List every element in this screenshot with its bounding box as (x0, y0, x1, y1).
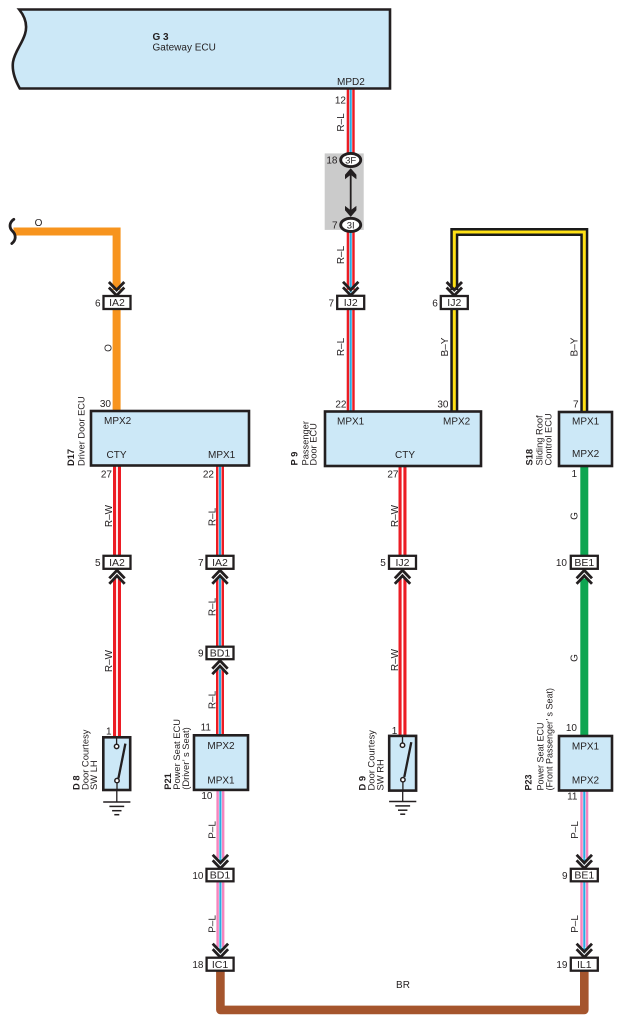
svg-text:MPX2: MPX2 (572, 776, 600, 787)
switch D8 Door Courtesy SW LH (103, 737, 130, 790)
svg-text:22: 22 (203, 469, 215, 480)
svg-text:12: 12 (335, 96, 347, 107)
wire O orange from break to D17 pin 30 via connector IA2 (14, 232, 117, 413)
svg-text:R–L: R–L (208, 507, 219, 526)
svg-text:MPX1: MPX1 (572, 742, 600, 753)
arrow below IJ2 pin 5 (397, 568, 408, 579)
svg-text:G: G (570, 512, 581, 520)
svg-text:Driver Door ECU: Driver Door ECU (77, 396, 87, 466)
svg-text:MPX2: MPX2 (207, 741, 235, 752)
label D17 Driver Door ECU (66, 396, 87, 466)
ECU D17 Driver Door ECU (91, 411, 249, 466)
svg-text:D17: D17 (66, 449, 76, 466)
svg-text:R–L: R–L (336, 337, 347, 356)
connector IJ2 pin 7 (337, 296, 364, 309)
ECU P21 Power Seat ECU (Driver's Seat) (194, 735, 248, 790)
ground of D8 (103, 790, 130, 815)
wire R-L from D17 pin 22 to P21 pin 11 (216, 465, 224, 737)
svg-text:IJ2: IJ2 (395, 557, 409, 569)
svg-text:P23: P23 (524, 774, 534, 790)
svg-text:R–L: R–L (208, 690, 219, 709)
svg-text:MPX2: MPX2 (104, 416, 132, 427)
svg-text:10: 10 (192, 871, 204, 882)
svg-text:11: 11 (567, 792, 578, 803)
connector oval 3F pin 18 (341, 153, 361, 166)
svg-text:10: 10 (556, 558, 568, 569)
svg-text:9: 9 (562, 871, 568, 882)
svg-text:19: 19 (556, 960, 568, 971)
connector BE1 pin 9 (571, 869, 598, 882)
svg-text:CTY: CTY (395, 450, 415, 461)
ECU P9 Passenger Door ECU (325, 412, 481, 467)
svg-text:MPX1: MPX1 (337, 417, 365, 428)
svg-text:7: 7 (332, 221, 338, 232)
svg-text:BR: BR (396, 980, 410, 991)
svg-text:O: O (104, 344, 115, 352)
svg-text:18: 18 (326, 156, 338, 167)
arrow into IJ2 (R-L) (345, 290, 356, 298)
svg-text:CTY: CTY (107, 450, 127, 461)
connector IA2 pin 6 (104, 296, 131, 309)
arrow into IC1 (215, 947, 226, 959)
svg-text:P–L: P–L (208, 915, 219, 933)
connector IA2 pin 7 (207, 556, 234, 569)
svg-text:MPX2: MPX2 (443, 417, 471, 428)
svg-text:27: 27 (101, 469, 113, 480)
wire R-W from D17 pin 27 to D8 pin 1 (113, 465, 121, 738)
arrow into IA2 (orange) (111, 290, 122, 298)
svg-text:22: 22 (335, 400, 347, 411)
svg-text:1: 1 (571, 469, 577, 480)
svg-text:IJ2: IJ2 (447, 297, 461, 309)
svg-text:3I: 3I (347, 220, 355, 231)
svg-text:SW LH: SW LH (88, 760, 99, 790)
svg-text:R–W: R–W (390, 504, 401, 527)
svg-text:P–L: P–L (570, 915, 581, 933)
svg-text:Door ECU: Door ECU (309, 423, 319, 465)
svg-text:R–L: R–L (336, 113, 347, 132)
svg-text:7: 7 (573, 400, 579, 411)
label D9 Door Courtesy SW RH (357, 730, 386, 791)
svg-text:10: 10 (201, 791, 213, 802)
wire B-Y from P9 pin 30 to S18 pin 7 via connector IJ2 (454, 232, 584, 412)
label D8 Door Courtesy SW LH (71, 729, 100, 790)
arrow below BD1 pin 9 (215, 658, 226, 669)
svg-text:Control ECU: Control ECU (544, 413, 554, 465)
connector BE1 pin 10 (571, 556, 598, 569)
svg-text:1: 1 (392, 726, 398, 737)
ECU P23 Power Seat ECU (Front Passenger's Seat) (559, 736, 612, 791)
svg-text:30: 30 (437, 400, 449, 411)
wire P-L from P23 pin 11 to connector IL1 (580, 791, 588, 959)
connector BD1 pin 9 (207, 647, 234, 660)
connector IJ2 pin 6 (441, 296, 468, 309)
arrow into IJ2 (B-Y) (449, 290, 460, 298)
svg-text:B–Y: B–Y (440, 337, 451, 356)
svg-text:BD1: BD1 (210, 870, 231, 882)
label P23 Power Seat ECU (Front Passenger's Seat) (524, 688, 555, 791)
svg-text:O: O (35, 218, 43, 229)
connector BD1 pin 10 (207, 869, 234, 882)
label P21 Power Seat ECU (Driver's Seat) (162, 719, 191, 790)
svg-text:6: 6 (95, 298, 101, 309)
svg-text:S18: S18 (525, 449, 535, 466)
svg-text:R–W: R–W (390, 648, 401, 671)
svg-text:R–L: R–L (336, 245, 347, 264)
svg-text:IA2: IA2 (212, 557, 228, 569)
svg-text:IL1: IL1 (577, 959, 592, 971)
svg-text:MPD2: MPD2 (337, 77, 365, 88)
ground of D9 (389, 791, 416, 815)
svg-text:(Driver’ s Seat): (Driver’ s Seat) (180, 727, 191, 790)
svg-text:7: 7 (198, 558, 204, 569)
arrow below IA2 pin 5 (112, 568, 123, 579)
svg-text:P–L: P–L (570, 821, 581, 839)
svg-text:SW RH: SW RH (375, 759, 386, 790)
svg-text:BE1: BE1 (574, 870, 594, 882)
connector oval 3I pin 7 (341, 218, 361, 231)
svg-text:MPX2: MPX2 (572, 449, 600, 460)
wire break squiggle at orange wire start (10, 219, 15, 243)
svg-text:B–Y: B–Y (570, 337, 581, 356)
svg-text:BE1: BE1 (574, 557, 594, 569)
wire BR from IC1 to IL1 (220, 969, 584, 1010)
svg-text:27: 27 (387, 470, 399, 481)
svg-text:P–L: P–L (208, 821, 219, 839)
svg-text:G: G (570, 654, 581, 662)
svg-text:Gateway ECU: Gateway ECU (153, 43, 216, 54)
arrow into BD1 pin 10 (215, 858, 226, 870)
svg-text:5: 5 (95, 558, 101, 569)
connector IL1 pin 19 (571, 958, 598, 971)
arrow below BE1 pin 10 (579, 568, 590, 579)
svg-text:MPX1: MPX1 (572, 417, 600, 428)
svg-text:18: 18 (192, 960, 204, 971)
svg-text:9: 9 (198, 649, 204, 660)
arrow below IA2 pin 7 (215, 568, 226, 579)
svg-text:6: 6 (432, 298, 438, 309)
connector IA2 pin 5 (104, 556, 131, 569)
svg-text:11: 11 (201, 722, 212, 733)
label P9 Passenger Door ECU (290, 421, 319, 465)
junction block 3F/3I gray panel (325, 153, 364, 230)
arrow into IL1 (579, 947, 590, 959)
svg-text:P 9: P 9 (290, 452, 300, 466)
connector IJ2 pin 5 (389, 556, 416, 569)
svg-text:1: 1 (106, 726, 112, 737)
svg-text:BD1: BD1 (210, 648, 231, 660)
wire G from S18 pin 1 to P23 pin 10 (580, 466, 588, 738)
ECU G3 Gateway ECU box with torn left edge (13, 10, 390, 89)
svg-text:10: 10 (566, 723, 578, 734)
arrow into BE1 pin 9 (579, 858, 590, 870)
svg-text:MPX1: MPX1 (207, 776, 235, 787)
connector IC1 pin 18 (207, 958, 234, 971)
wire R-W from P9 pin 27 to D9 pin 1 (399, 466, 407, 738)
svg-text:(Front Passenger’ s Seat): (Front Passenger’ s Seat) (545, 688, 555, 791)
svg-text:3F: 3F (345, 155, 356, 166)
ECU S18 Sliding Roof Control ECU (559, 412, 612, 466)
svg-text:IJ2: IJ2 (344, 297, 358, 309)
switch D9 Door Courtesy SW RH (389, 736, 416, 791)
svg-text:R–L: R–L (208, 597, 219, 616)
wire P-L from P21 pin 10 to connector IC1 (216, 790, 224, 959)
svg-text:30: 30 (100, 399, 112, 410)
arrow between 3F and 3I (345, 168, 356, 217)
svg-text:IA2: IA2 (109, 297, 125, 309)
label S18 Sliding Roof Control ECU (525, 413, 554, 465)
svg-text:7: 7 (328, 298, 334, 309)
svg-text:G 3: G 3 (153, 32, 170, 43)
wire R-L from G3 MPD2 pin 12 to P9 pin 22 (347, 90, 355, 413)
svg-text:R–W: R–W (104, 649, 115, 672)
svg-text:5: 5 (380, 558, 386, 569)
svg-text:R–W: R–W (104, 504, 115, 527)
svg-text:IA2: IA2 (109, 557, 125, 569)
svg-text:IC1: IC1 (212, 959, 229, 971)
svg-text:MPX1: MPX1 (208, 450, 236, 461)
